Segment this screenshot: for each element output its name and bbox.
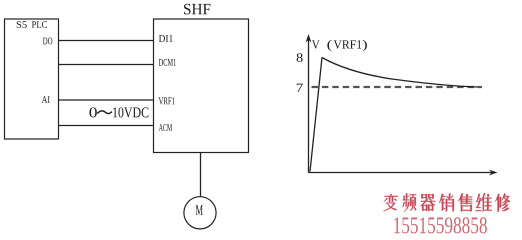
graph y-axis arrowhead xyxy=(306,34,312,43)
motor letter M xyxy=(196,205,203,215)
wire AI to VRF1 xyxy=(59,99,154,101)
value label 10VDC xyxy=(113,107,148,117)
value label 0 xyxy=(89,107,96,117)
pin label DO xyxy=(43,38,52,45)
inverter box SHF xyxy=(154,19,249,153)
axis label V xyxy=(312,40,320,48)
inverter title SHF xyxy=(184,4,210,15)
VRF1 voltage decay curve xyxy=(322,58,478,88)
PLC box S5 PLC xyxy=(5,19,59,139)
wire DO to DI1 xyxy=(59,40,154,42)
pin label ACM xyxy=(159,124,172,131)
label S5 of S5 PLC xyxy=(17,21,27,28)
tick label 7 xyxy=(297,84,303,92)
watermark phone 15515598858 xyxy=(394,217,487,233)
tick label 8 xyxy=(297,53,303,62)
pin label AI xyxy=(42,96,50,103)
watermark text 变频器销售维修 xyxy=(383,193,510,212)
VRF1 voltage rising edge xyxy=(310,58,322,172)
wire to ACM xyxy=(59,125,154,127)
pin label DI1 xyxy=(159,35,173,42)
wire SHF to motor xyxy=(200,153,202,197)
axis label VRF1 xyxy=(333,40,361,48)
axis label open paren xyxy=(327,40,331,51)
graph y-axis xyxy=(308,37,310,173)
motor M circle xyxy=(184,197,216,229)
pin label DCM1 xyxy=(159,59,176,66)
label PLC of S5 PLC xyxy=(32,21,47,28)
graph x-axis arrowhead xyxy=(489,170,498,176)
tilde of 0~10VDC xyxy=(97,111,112,114)
axis label close paren xyxy=(363,40,367,51)
graph x-axis xyxy=(309,172,495,174)
pin label VRF1 xyxy=(159,97,175,104)
dashed asymptote at level 7 xyxy=(312,86,483,88)
wire to DCM1 xyxy=(59,64,154,66)
